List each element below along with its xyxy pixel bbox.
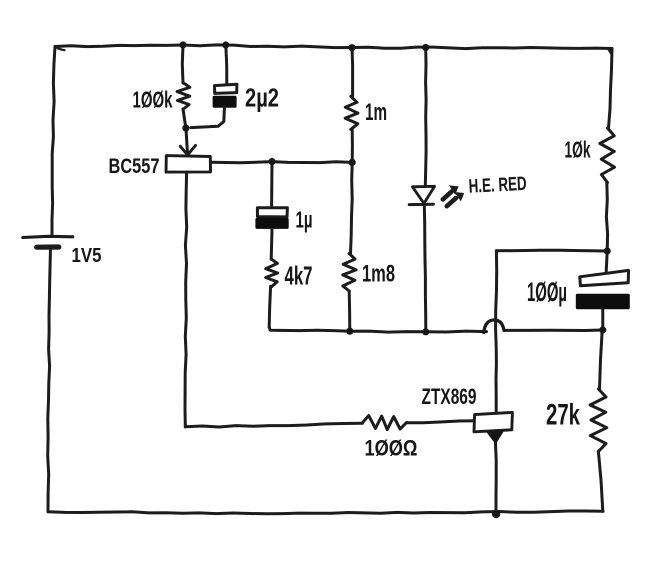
- svg-text:BC557: BC557: [109, 154, 160, 178]
- svg-text:1V5: 1V5: [72, 244, 102, 267]
- svg-text:H.E. RED: H.E. RED: [468, 173, 527, 198]
- svg-text:1m8: 1m8: [362, 261, 395, 288]
- svg-text:1µ: 1µ: [296, 207, 313, 233]
- svg-text:27k: 27k: [546, 399, 580, 432]
- svg-text:1Øk: 1Øk: [565, 137, 591, 163]
- svg-text:1ØØΩ: 1ØØΩ: [365, 436, 418, 461]
- svg-text:2µ2: 2µ2: [245, 85, 279, 113]
- svg-text:1ØØµ: 1ØØµ: [527, 277, 567, 307]
- svg-text:1ØØk: 1ØØk: [133, 87, 174, 113]
- svg-text:1m: 1m: [365, 99, 387, 126]
- svg-text:4k7: 4k7: [285, 261, 313, 291]
- svg-text:ZTX869: ZTX869: [422, 384, 477, 409]
